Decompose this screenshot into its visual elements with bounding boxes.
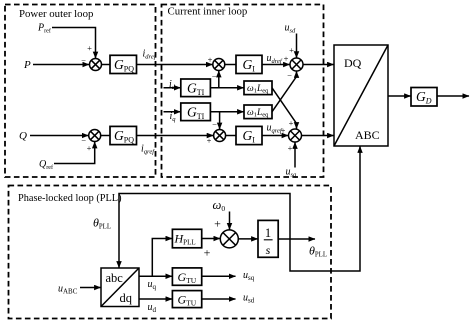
svg-text:+: +: [288, 143, 293, 153]
block GI2: [236, 126, 262, 144]
wire theta feedback lower to DQ block: [290, 146, 360, 271]
svg-text:dq: dq: [120, 291, 133, 305]
svg-text:+: +: [204, 246, 211, 260]
svg-text:DQ: DQ: [344, 56, 362, 70]
wire J4 to GI2: [226, 135, 236, 137]
wire usq rise to J6: [294, 142, 296, 167]
svg-text:−: −: [212, 120, 217, 130]
wire uABC input: [80, 287, 101, 289]
svg-text:usd: usd: [285, 22, 297, 34]
block DQ/ABC transform: [334, 45, 388, 146]
block GTI1: [181, 79, 211, 97]
svg-text:usd: usd: [243, 292, 255, 304]
svg-text:Qref: Qref: [39, 159, 54, 171]
wire ud to GTU2: [139, 298, 172, 300]
wire Qref to J5: [54, 142, 95, 164]
block GI1: [236, 55, 262, 73]
block abc/dq transform: [101, 268, 139, 307]
wire P input: [33, 64, 89, 66]
svg-text:iq: iq: [170, 111, 177, 123]
wire idref GPQ1 to J2: [137, 64, 213, 66]
svg-text:ABC: ABC: [355, 128, 380, 142]
svg-text:ω0: ω0: [213, 198, 226, 213]
wire HPLL to J7: [202, 238, 220, 240]
wire GTI2 to w1Leq2: [210, 111, 243, 113]
block w1Leq2: [244, 105, 272, 119]
svg-text:+: +: [87, 143, 92, 153]
svg-text:+: +: [289, 118, 294, 128]
wire Pref to junction J1: [52, 28, 96, 59]
junction J2: [213, 59, 225, 71]
svg-text:+: +: [281, 126, 286, 136]
svg-text:+: +: [207, 136, 212, 146]
svg-text:udref: udref: [267, 53, 283, 65]
block w1Leq1: [244, 81, 272, 95]
power outer loop box: [5, 5, 156, 178]
svg-text:iqref: iqref: [141, 144, 155, 156]
junction J6: [289, 129, 302, 142]
svg-text:abc: abc: [106, 271, 124, 285]
wire diagonal w1Leq1 to J6: [272, 88, 297, 129]
block GTI2: [181, 103, 211, 121]
wire J2 to GI1: [225, 64, 236, 66]
wire diagonal w1Leq2 to J3: [272, 71, 297, 112]
svg-text:−: −: [212, 72, 217, 82]
block text 1/s fraction bar: [264, 239, 273, 241]
wire theta feedback upper to abcdq: [119, 194, 290, 268]
wire iqref GPQ2 to J4: [137, 135, 214, 137]
wire w0 drop to J7: [229, 212, 231, 230]
wire id input: [164, 87, 181, 89]
svg-text:idref: idref: [143, 49, 157, 61]
svg-text:+: +: [208, 55, 213, 65]
junction J1: [90, 59, 102, 71]
svg-text:Q: Q: [19, 130, 27, 142]
svg-text:P: P: [23, 59, 31, 71]
svg-text:Power outer loop: Power outer loop: [19, 8, 93, 20]
wire thetaPLL output: [278, 238, 315, 240]
svg-text:uq: uq: [148, 279, 157, 291]
block GPQ2: [110, 126, 137, 144]
wire J7 to 1/s: [238, 238, 257, 240]
junction J7 PLL: [220, 230, 238, 248]
block GTU2: [172, 291, 201, 308]
svg-text:+: +: [284, 53, 289, 63]
wire GTI1 to w1Leq1: [210, 87, 243, 89]
svg-text:Pref: Pref: [37, 23, 52, 35]
junction J3: [290, 58, 303, 71]
wire GTU1 output usq: [202, 275, 236, 277]
wire branch down to J4: [219, 112, 221, 129]
current inner loop box: [162, 5, 324, 178]
wire J5 to GPQ2: [101, 135, 110, 137]
svg-text:−: −: [287, 71, 292, 81]
wire uqref GI2 to J6: [262, 135, 288, 137]
wire branch up to J2: [218, 71, 220, 88]
svg-text:ud: ud: [148, 302, 157, 314]
junction J5: [89, 130, 101, 142]
PLL box: [9, 186, 332, 319]
block GD: [411, 88, 437, 107]
wire J6 to DQ block: [302, 135, 334, 137]
svg-text:usq: usq: [243, 270, 255, 282]
wire usd drop to J3: [296, 34, 298, 58]
wire uq branch to HPLL: [152, 239, 172, 277]
wire GD output: [437, 95, 469, 97]
svg-text:+: +: [214, 217, 221, 231]
block GPQ1: [110, 55, 137, 73]
svg-text:θPLL: θPLL: [93, 216, 111, 231]
wire GTU2 output usd: [202, 298, 236, 300]
block HPLL: [172, 229, 201, 248]
wire J1 to GPQ1: [102, 64, 111, 66]
svg-text:s: s: [266, 243, 271, 257]
svg-text:Current inner loop: Current inner loop: [168, 6, 248, 18]
svg-text:+: +: [87, 43, 92, 53]
svg-text:−: −: [81, 135, 86, 145]
svg-text:+: +: [289, 45, 294, 55]
block 1/s integrator: [258, 220, 278, 257]
svg-text:uABC: uABC: [58, 284, 78, 296]
wire uq to GTU1: [139, 275, 172, 277]
svg-text:id: id: [169, 79, 176, 91]
wire udref GI1 to J3: [262, 64, 290, 66]
wire iq input: [164, 111, 181, 113]
block GTU1: [172, 268, 201, 285]
svg-text:−: −: [81, 56, 86, 66]
wire J3 to DQ block: [303, 64, 334, 66]
svg-text:θPLL: θPLL: [309, 243, 327, 258]
wire DQ to GD: [388, 95, 411, 97]
svg-text:Phase-locked loop (PLL): Phase-locked loop (PLL): [18, 193, 122, 204]
svg-text:1: 1: [265, 226, 271, 240]
svg-text:usq: usq: [286, 167, 298, 179]
junction J4: [214, 130, 226, 142]
wire Q input: [30, 135, 88, 137]
